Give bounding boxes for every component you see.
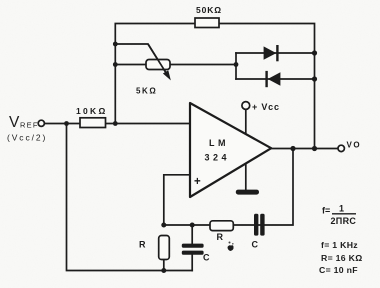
svg-text:f=: f= bbox=[322, 206, 330, 216]
svg-text:R= 16 KΩ: R= 16 KΩ bbox=[321, 253, 362, 263]
svg-text:50KΩ: 50KΩ bbox=[196, 5, 222, 15]
svg-text:C: C bbox=[203, 253, 210, 263]
svg-text:+: + bbox=[194, 176, 201, 188]
svg-text:REF: REF bbox=[20, 121, 39, 130]
svg-text:+ Vcc: + Vcc bbox=[252, 102, 280, 112]
svg-text:R: R bbox=[139, 240, 146, 250]
svg-text:VO: VO bbox=[347, 141, 362, 150]
svg-text:f= 1 KHz: f= 1 KHz bbox=[321, 240, 358, 250]
svg-text:C= 10 nF: C= 10 nF bbox=[319, 265, 358, 275]
svg-text:2ΠRC: 2ΠRC bbox=[331, 216, 357, 226]
svg-text:324: 324 bbox=[205, 153, 231, 163]
svg-text:LM: LM bbox=[209, 138, 229, 148]
svg-text:R: R bbox=[217, 232, 224, 242]
svg-text:(Vcc/2): (Vcc/2) bbox=[7, 133, 47, 143]
svg-text:V: V bbox=[9, 114, 20, 131]
svg-text:C: C bbox=[252, 240, 259, 250]
svg-text:10KΩ: 10KΩ bbox=[76, 106, 108, 116]
svg-text:1: 1 bbox=[339, 204, 344, 214]
svg-text:5KΩ: 5KΩ bbox=[136, 87, 157, 96]
